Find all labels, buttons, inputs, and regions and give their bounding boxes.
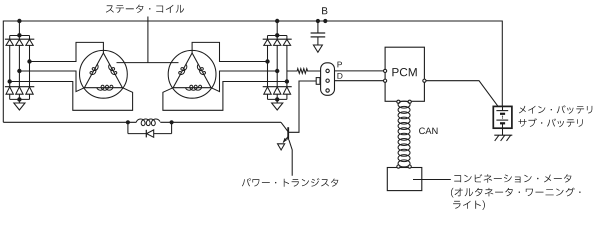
label combination meter line 2	[451, 188, 581, 198]
label PCM	[392, 68, 416, 76]
ground arrow under rectifier 1	[14, 103, 25, 110]
node field coil right	[170, 120, 174, 124]
stator coil winding 2 (delta) L2	[168, 50, 216, 98]
wire phase B2: winding 2 right vertex to rectifier 2	[211, 71, 277, 92]
diode rectifier 1 negative diodes D4-D6	[5, 87, 34, 103]
wire phase B: rectifier 1 to winding 1 left vertex	[19, 71, 84, 92]
leader line to power transistor label	[289, 140, 292, 176]
stator coil winding 1 (delta) L1	[80, 50, 128, 98]
diode rectifier bridge 2 cathode rail node	[268, 19, 287, 38]
PCM pin battery sense	[423, 79, 426, 82]
ground arrow at transistor emitter	[278, 144, 285, 150]
wire P terminal to PCM	[335, 70, 386, 72]
node B terminal junction 2	[323, 19, 327, 23]
transistor Q1 emitter lead	[283, 136, 288, 142]
wire D terminal from power transistor base	[288, 81, 327, 132]
wire alternator bottom rail / field circuit	[3, 121, 136, 123]
node phase C2 tap	[285, 79, 289, 83]
connector pin unused	[326, 89, 329, 92]
label main battery	[519, 105, 592, 114]
wire rectifier 2 phase legs	[268, 45, 287, 86]
label sub battery	[518, 118, 582, 127]
meter pin CAN-H	[397, 165, 400, 168]
wire stator link between winding 1 and winding 2	[117, 62, 179, 64]
chassis ground under battery	[494, 135, 512, 141]
label stator coil	[106, 5, 184, 13]
connector pin P	[326, 69, 329, 72]
flyback diode D7	[145, 130, 147, 138]
node phase A2 tap	[265, 59, 269, 63]
transistor Q1 collector lead	[281, 122, 288, 131]
node phase C tap	[8, 79, 12, 83]
flyback diode D7 branch wires	[127, 122, 129, 133]
wire phase A2: winding 2 apex to rectifier 2	[192, 42, 267, 61]
combination meter box	[387, 168, 422, 191]
node phase B tap	[17, 69, 21, 73]
wire D terminal to PCM	[335, 80, 386, 82]
wire top B+ bus from alternator to battery	[3, 21, 502, 122]
CAN bus twisted pair	[398, 101, 410, 167]
field coil (rotor) L3	[136, 119, 160, 126]
ground arrow under capacitor C1	[313, 45, 322, 52]
wire phase A: rectifier 1 to winding 1 apex	[30, 42, 104, 61]
alternator connector (3-pin)	[321, 63, 335, 96]
diode rectifier 2 positive diodes D8-D10	[263, 36, 292, 46]
wire phase C2: winding 2 left vertex to rectifier 2	[163, 82, 287, 111]
wire phase tap through resistor R1 to P terminal	[287, 69, 321, 74]
leader line for stator coil label	[147, 17, 149, 63]
wire PCM to battery	[426, 81, 498, 107]
node phase B2 tap	[275, 69, 279, 73]
wire rectifier 1 phase legs	[10, 45, 30, 86]
label B terminal	[322, 7, 327, 14]
label D terminal	[338, 73, 343, 79]
PCM module U1	[385, 47, 424, 101]
label combination meter line 3	[453, 200, 485, 210]
battery B1 box	[493, 106, 512, 128]
capacitor C1 (noise suppressor)	[317, 21, 319, 33]
PCM pin D output	[384, 79, 387, 82]
node phase A tap	[27, 59, 31, 63]
transistor Q1 base bar	[287, 127, 289, 140]
diode rectifier 2 negative diodes D11-D13	[263, 87, 292, 103]
node field coil left	[126, 120, 130, 124]
wire battery to chassis ground	[502, 128, 504, 135]
connector pin D	[326, 79, 329, 82]
meter pin CAN-L	[408, 165, 411, 168]
leader line to combination meter label	[413, 179, 451, 181]
PCM pin CAN-H	[397, 100, 400, 103]
diode rectifier bridge 1 cathode rail node	[10, 19, 30, 38]
label combination meter line 1	[454, 174, 571, 183]
label CAN	[419, 128, 437, 135]
ground arrow under rectifier 2	[272, 103, 283, 110]
label P terminal	[338, 62, 343, 68]
diode rectifier 1 positive diodes D1-D3	[5, 36, 34, 46]
PCM pin CAN-L	[408, 100, 411, 103]
connector tab on D terminal	[316, 78, 320, 85]
label power transistor	[242, 178, 338, 187]
battery cells	[496, 106, 508, 128]
node B terminal junction 1	[316, 19, 320, 23]
PCM pin P input	[384, 69, 387, 72]
wire phase C: rectifier 1 to winding 1 right vertex	[10, 82, 133, 111]
